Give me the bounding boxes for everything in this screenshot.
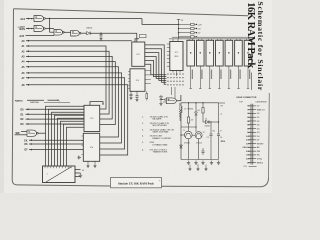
wire D0 line bbox=[26, 108, 85, 110]
wire A1 bus line bbox=[26, 46, 106, 109]
wire +12V rail over RAM chips bbox=[169, 38, 251, 40]
wire WR inputs bbox=[21, 131, 27, 133]
wire U1A output bbox=[46, 18, 143, 20]
table row A9 bbox=[248, 161, 256, 163]
IC5 IC6 pin stubs left bbox=[82, 135, 84, 137]
diode D5 on x196 bbox=[195, 112, 198, 115]
IC3/IC4 output staircase to RAM address bus bbox=[145, 45, 167, 84]
IC3 top pins bbox=[198, 39, 200, 40]
table row CK bbox=[248, 116, 256, 118]
IC1 pin number grid bbox=[167, 74, 168, 75]
nand-gate U2A bbox=[54, 30, 63, 36]
wire U3A output up bbox=[177, 95, 181, 101]
table row A2 bbox=[248, 128, 256, 130]
nand-gate U3A power osc bbox=[166, 98, 176, 104]
ground lower row extra c bbox=[205, 167, 207, 169]
wire A3 bus line bbox=[26, 56, 112, 119]
wire A6 bus line bbox=[26, 73, 122, 143]
ground pwr a bbox=[188, 161, 190, 163]
wire power top rail bbox=[181, 102, 219, 104]
wire rail drop at right end bbox=[250, 39, 252, 40]
transistor T1 bbox=[185, 131, 193, 139]
capacitor C1 bbox=[100, 33, 102, 34]
component R9 small box near mux bbox=[140, 35, 147, 38]
wire IC2 bottom drop bbox=[190, 66, 192, 89]
capacitor C3 bbox=[210, 122, 212, 134]
IC6 top pins bbox=[226, 39, 228, 40]
table row A3 bbox=[248, 131, 256, 133]
table row A1 bbox=[248, 124, 256, 126]
IC IC3 4116 RAM bbox=[196, 40, 204, 66]
inductor L1 bbox=[181, 106, 182, 108]
IC5 top pins bbox=[217, 39, 219, 40]
IC7 top pins bbox=[236, 39, 238, 40]
wire IC4 right stubs bbox=[145, 70, 151, 72]
caption box bbox=[111, 178, 162, 188]
wire IC5 bottom drop bbox=[218, 66, 220, 89]
wire IC6 bottom components bbox=[87, 161, 89, 164]
wire 5V rail vertical bbox=[178, 19, 180, 39]
node 5V label bbox=[177, 18, 180, 20]
wire bottom rail bbox=[181, 159, 219, 161]
IC IC8 4116 RAM bbox=[244, 40, 252, 66]
border frame bottom edge with rounded corner bbox=[12, 178, 268, 187]
IC1 bottom pins bbox=[172, 71, 174, 73]
capacitor C7 below IC4 bbox=[136, 91, 138, 95]
wire IC3 top pin bbox=[135, 39, 139, 42]
IC IC3 74LS157 bbox=[132, 42, 145, 66]
table row A13 bbox=[248, 143, 256, 145]
table row 5V bbox=[248, 105, 256, 107]
wire A14 to gate U1A bbox=[26, 18, 34, 20]
IC IC6 4116 RAM bbox=[225, 40, 233, 66]
wire D2 line bbox=[26, 118, 85, 120]
wire connector right stubs bbox=[75, 169, 81, 171]
diode D1 horizontal bbox=[203, 121, 206, 123]
IC IC5 4116 RAM bbox=[216, 40, 224, 66]
wire A0 bus line bbox=[26, 40, 132, 42]
capacitor C4 bbox=[218, 103, 220, 134]
resistor R6 on x203 rail bbox=[202, 108, 204, 114]
wire IC7 bottom drop bbox=[237, 66, 239, 89]
wire A4 bus line bbox=[26, 62, 115, 125]
border frame right edge bbox=[268, 93, 271, 178]
wire U2C output bbox=[39, 132, 46, 134]
border frame left edge bbox=[12, 9, 13, 180]
IC IC2 4116 RAM bbox=[187, 40, 195, 66]
wire T1 T2 join bbox=[187, 139, 189, 160]
ground pwr e bbox=[218, 161, 220, 163]
IC IC7 4116 RAM bbox=[235, 40, 243, 66]
wire IC8 bottom drop bbox=[247, 66, 249, 89]
wire diode to capacitor C1 node bbox=[90, 32, 137, 34]
or-gate U1B bbox=[34, 26, 44, 32]
or-gate U1A bbox=[34, 16, 44, 22]
wire T2 base link bbox=[192, 134, 195, 136]
IC4 top pins bbox=[207, 39, 209, 40]
ground IC6 b bbox=[94, 164, 96, 166]
IC1 left pin stubs with labels bbox=[167, 43, 170, 45]
IC IC4 74LS157 bbox=[130, 69, 145, 92]
border frame top edge bbox=[14, 9, 249, 16]
junction dots on 5V rail bbox=[178, 24, 179, 25]
wire connector bus verticals bbox=[46, 106, 85, 166]
wire T1 base link bbox=[181, 134, 185, 136]
wire A7 bus line bbox=[26, 78, 125, 149]
wire left rail lower bbox=[180, 113, 182, 160]
wire IC5 top loop bbox=[90, 102, 103, 106]
IC1 top pins bbox=[172, 39, 174, 42]
table row A15 bbox=[248, 135, 256, 137]
transistor T2 bbox=[195, 132, 202, 139]
connector J1 box bbox=[43, 166, 76, 183]
diode D3 vertical bbox=[160, 95, 162, 97]
IC IC1 4116 RAM bbox=[170, 42, 183, 71]
wire D1 line bbox=[26, 113, 85, 115]
wire osc feedback bbox=[181, 126, 196, 128]
ground lower row extra a bbox=[189, 167, 191, 169]
table row STL bbox=[249, 165, 257, 167]
IC IC5 74LS157 upper bbox=[84, 105, 100, 131]
resistor R7 zigzag bbox=[179, 110, 181, 119]
wire chain up to mux IC3 bbox=[136, 33, 138, 42]
table row A11 bbox=[248, 154, 256, 156]
wire IC3 bottom drop bbox=[199, 66, 201, 89]
wire +5V rail over RAM chips bbox=[172, 36, 251, 38]
wire A15 to gate U2A bbox=[26, 35, 55, 37]
ground below C1 bbox=[100, 36, 102, 38]
wire U1B output junction rail bbox=[46, 28, 55, 30]
wire A5 bus line bbox=[26, 67, 118, 137]
edge connector table center rails bbox=[250, 104, 252, 165]
wire D6 long line bbox=[29, 143, 83, 145]
IC8 top pins bbox=[245, 39, 247, 40]
connector J1 diagonal key line bbox=[46, 167, 71, 182]
ground C6 bbox=[130, 96, 132, 98]
wire A8 bus line bbox=[26, 85, 128, 155]
table row RAMCS bbox=[248, 146, 256, 148]
wire D3 line bbox=[26, 123, 85, 125]
title underline dash bbox=[251, 73, 253, 91]
wire U3A inputs bbox=[161, 99, 165, 101]
IC4 left pin stubs bbox=[128, 71, 130, 73]
resistor network stubs R1-R4 bbox=[179, 23, 191, 25]
scan edge shading left bbox=[0, 0, 4, 200]
nor-gate U2C bbox=[27, 130, 37, 136]
wire rail x196 bbox=[195, 103, 197, 112]
ground lower row extra b bbox=[197, 167, 199, 169]
wire A2 bus line bbox=[26, 51, 109, 114]
ground pwr d bbox=[211, 161, 213, 163]
wire RAS to gate U1B bbox=[26, 28, 34, 30]
connector J1 pin ticks bbox=[44, 166, 46, 168]
wire D7 long line bbox=[29, 149, 83, 151]
table row A12 bbox=[248, 150, 256, 152]
wire extra data row to IC5 bbox=[67, 127, 85, 166]
wire CK long line bbox=[29, 139, 83, 141]
table row 9V bbox=[248, 109, 256, 111]
IC IC6 74LS157 lower bbox=[83, 133, 99, 161]
diode D6 left rail bbox=[180, 145, 183, 148]
wire IC4 bottom drop bbox=[209, 66, 211, 89]
wire U1A output bend down to rail bbox=[142, 19, 179, 25]
wire rail x188.5 bbox=[188, 103, 190, 117]
resistor R8 below IC4 bbox=[146, 91, 148, 93]
ground connector bbox=[80, 173, 82, 175]
wire IC6 bottom drop bbox=[228, 66, 230, 89]
nand-gate U2B bbox=[71, 30, 80, 36]
ground IC6 a bbox=[87, 164, 89, 166]
wire to table bbox=[219, 102, 226, 104]
ground pwr c bbox=[202, 161, 204, 163]
wire IC1 bottom drop bbox=[175, 73, 177, 77]
page sheet bbox=[4, 0, 272, 198]
table row A0 bbox=[248, 120, 256, 122]
ground pwr b bbox=[195, 161, 197, 163]
IC IC4 4116 RAM bbox=[206, 40, 214, 66]
IC2 top pins bbox=[188, 39, 190, 40]
resistor R5 bbox=[187, 117, 189, 123]
table row 0V bbox=[248, 112, 256, 114]
ground D3 bbox=[160, 102, 162, 104]
wire pin grid drops to gates bbox=[171, 87, 173, 95]
wire lower stubs bbox=[189, 165, 191, 168]
ground C7 bbox=[136, 98, 138, 100]
table row A14 bbox=[248, 139, 256, 141]
table row A10 bbox=[248, 158, 256, 160]
diode D2 with label 1N4148 bbox=[81, 32, 87, 34]
capacitor C5 small bbox=[202, 148, 204, 151]
wire RAMCS with gap bbox=[27, 99, 44, 101]
diode D4 below IC6 bbox=[78, 157, 81, 159]
wire U2A to U2B bbox=[64, 31, 71, 33]
wire rail x203 bbox=[202, 103, 204, 122]
scan edge shading bottom bbox=[0, 193, 272, 200]
wire power left rail bbox=[180, 103, 182, 106]
capacitor C6 below IC4 bbox=[130, 91, 132, 94]
